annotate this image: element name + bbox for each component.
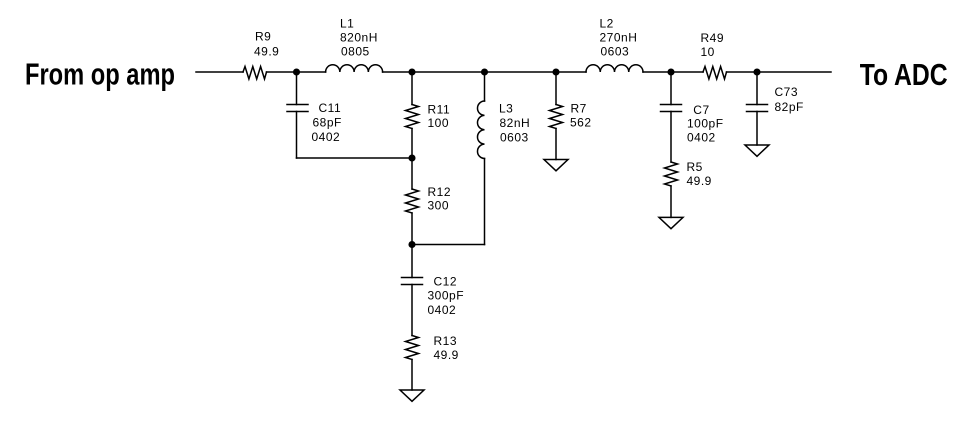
- node label From op amp: [25, 58, 175, 92]
- svg-text:300: 300: [428, 199, 450, 213]
- inductor L3: [477, 101, 484, 159]
- svg-text:L2: L2: [600, 17, 614, 31]
- inductor L2: [586, 65, 643, 72]
- wire L3 top lead: [484, 72, 486, 101]
- capacitor C11: [287, 105, 308, 112]
- label R11 100: [428, 103, 451, 131]
- svg-text:0402: 0402: [687, 130, 716, 144]
- svg-text:68pF: 68pF: [313, 116, 342, 130]
- label C11 68pF 0402: [312, 101, 342, 144]
- svg-text:To ADC: To ADC: [860, 58, 948, 92]
- label C12 300pF 0402: [428, 275, 465, 318]
- resistor R9: [243, 67, 267, 80]
- svg-text:R12: R12: [428, 185, 452, 199]
- ground below R7: [544, 160, 568, 171]
- wire L2 to R49: [643, 71, 703, 73]
- node R11 junction: [409, 69, 415, 75]
- svg-text:100: 100: [428, 116, 450, 130]
- wire C73 top lead: [756, 72, 758, 105]
- svg-text:49.9: 49.9: [687, 174, 712, 188]
- svg-text:C11: C11: [319, 101, 342, 115]
- label R12 300: [428, 185, 452, 213]
- label C7 100pF 0402: [687, 103, 724, 144]
- ground below R5: [659, 217, 683, 228]
- wire C73 bottom lead: [756, 112, 758, 146]
- wire R11 bottom lead: [411, 129, 413, 159]
- label R5 49.9: [687, 160, 712, 188]
- wire C7 to R5: [670, 112, 672, 163]
- svg-text:From op amp: From op amp: [25, 58, 175, 92]
- wire C12 top lead: [411, 245, 413, 278]
- svg-text:L1: L1: [340, 17, 354, 31]
- node C7 junction: [668, 69, 674, 75]
- svg-text:82pF: 82pF: [775, 100, 804, 114]
- node R12/L3/C12 junction: [409, 242, 415, 248]
- svg-text:R7: R7: [571, 102, 587, 116]
- svg-text:0402: 0402: [428, 303, 457, 317]
- node R7 junction: [553, 69, 559, 75]
- resistor R13: [406, 336, 419, 360]
- svg-text:100pF: 100pF: [687, 116, 724, 130]
- wire C12 to R13: [411, 285, 413, 336]
- wire input to R9: [196, 71, 243, 73]
- svg-text:0603: 0603: [500, 130, 529, 144]
- capacitor C73: [747, 105, 768, 112]
- node L3 junction: [482, 69, 488, 75]
- wire C11 bottom lead: [296, 112, 298, 159]
- wire R13 bottom lead: [411, 360, 413, 391]
- svg-text:R13: R13: [434, 334, 458, 348]
- wire C11 top lead: [296, 72, 298, 105]
- resistor R49: [703, 67, 727, 80]
- label L2 270nH 0603: [600, 17, 638, 59]
- svg-text:C73: C73: [775, 85, 799, 99]
- wire C7 top lead: [670, 72, 672, 105]
- resistor R7: [550, 105, 563, 129]
- wire C11 to R11/R12 junction: [297, 157, 413, 159]
- label L1 820nH 0805: [340, 17, 378, 59]
- node C11 junction: [294, 69, 300, 75]
- wire R7 top lead: [555, 72, 557, 105]
- label R7 562: [570, 102, 592, 130]
- wire R49 to output: [727, 71, 832, 73]
- svg-text:82nH: 82nH: [500, 116, 531, 130]
- svg-text:270nH: 270nH: [600, 31, 638, 45]
- wire R12 bottom lead: [411, 213, 413, 245]
- capacitor C12: [402, 278, 423, 285]
- svg-text:300pF: 300pF: [428, 289, 465, 303]
- label C73 82pF: [775, 85, 804, 114]
- svg-text:R5: R5: [687, 160, 703, 174]
- svg-text:10: 10: [701, 45, 715, 59]
- svg-text:0402: 0402: [312, 130, 341, 144]
- node label To ADC: [860, 58, 948, 92]
- wire R11 top lead: [411, 72, 413, 105]
- wire R7 bottom lead: [555, 129, 557, 160]
- wire L3 to R12/C12 junction: [412, 244, 485, 246]
- node R11/R12 junction: [409, 155, 415, 161]
- label R9 49.9: [254, 30, 279, 59]
- ground below C73: [745, 145, 769, 156]
- resistor R12: [406, 189, 419, 213]
- svg-text:0805: 0805: [341, 45, 370, 59]
- svg-text:L3: L3: [499, 102, 513, 116]
- ground below R13: [400, 390, 424, 401]
- svg-text:49.9: 49.9: [254, 44, 279, 58]
- capacitor C7: [661, 105, 682, 112]
- svg-text:C7: C7: [693, 103, 709, 117]
- wire R5 bottom lead: [670, 186, 672, 217]
- svg-text:C12: C12: [434, 275, 458, 289]
- svg-text:0603: 0603: [601, 45, 630, 59]
- svg-text:R49: R49: [701, 31, 725, 45]
- svg-text:R9: R9: [255, 30, 271, 44]
- label L3 82nH 0603: [499, 102, 530, 145]
- resistor R5: [665, 162, 678, 186]
- wire R9 to L1: [267, 71, 326, 73]
- label R49 10: [701, 31, 725, 59]
- wire R12 top lead: [411, 158, 413, 189]
- node C73 junction: [754, 69, 760, 75]
- wire L1 to L2: [383, 71, 586, 73]
- svg-text:49.9: 49.9: [434, 348, 459, 362]
- inductor L1: [326, 65, 383, 72]
- wire L3 bottom lead: [484, 159, 486, 245]
- svg-text:820nH: 820nH: [340, 31, 378, 45]
- svg-text:562: 562: [570, 116, 592, 130]
- label R13 49.9: [434, 334, 459, 362]
- svg-text:R11: R11: [428, 103, 451, 117]
- resistor R11: [406, 105, 419, 129]
